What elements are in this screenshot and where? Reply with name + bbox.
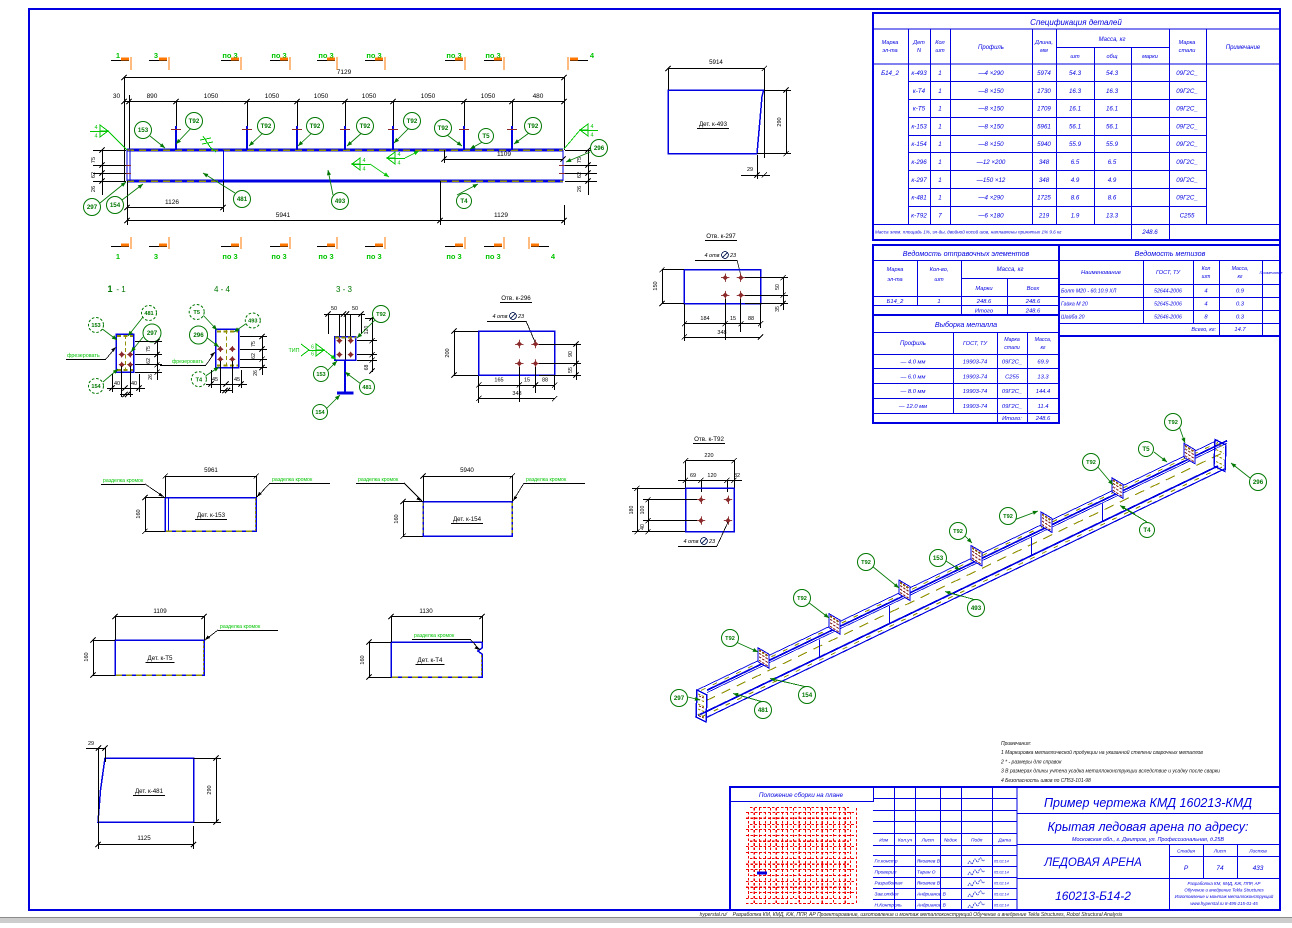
holes detail к-297 right dims 50/35	[783, 278, 785, 310]
isometric beam: web center dashes	[706, 451, 1226, 701]
svg-text:—8 ×150: —8 ×150	[977, 141, 1004, 148]
weld symbols (green)	[90, 125, 108, 137]
svg-text:Листов: Листов	[1248, 849, 1267, 855]
svg-text:Наименование: Наименование	[1081, 270, 1122, 276]
detail к-Т5 dim 1109	[115, 616, 204, 618]
svg-text:мм: мм	[1040, 48, 1048, 54]
holes detail к-297 bolts	[721, 274, 729, 282]
svg-text:Таран О: Таран О	[917, 870, 936, 876]
svg-text:Т92: Т92	[725, 636, 735, 642]
svg-text:Т5: Т5	[193, 310, 200, 316]
svg-text:69: 69	[690, 473, 696, 479]
svg-text:153: 153	[138, 127, 149, 134]
signature table grid	[894, 787, 896, 910]
svg-text:Т92: Т92	[1086, 460, 1096, 466]
svg-text:к-481: к-481	[911, 195, 926, 202]
svg-text:Т92: Т92	[797, 596, 807, 602]
svg-text:0.9: 0.9	[1236, 289, 1245, 295]
svg-text:1130: 1130	[419, 608, 433, 615]
svg-text:Положение сборки на плане: Положение сборки на плане	[759, 791, 844, 799]
svg-text:Андрианов В: Андрианов В	[916, 903, 947, 909]
svg-text:4: 4	[362, 158, 365, 164]
detail к-153 dim 160	[145, 498, 147, 532]
holes detail к-296 plate	[479, 331, 555, 375]
isometric left end plate к-297	[696, 690, 707, 722]
svg-text:1: 1	[107, 284, 112, 294]
section 3-3 stiffener plate	[335, 337, 356, 360]
svg-text:по 3: по 3	[318, 252, 333, 261]
svg-text:Всего, кг:: Всего, кг:	[1191, 327, 1216, 333]
svg-text:Р: Р	[1184, 865, 1189, 872]
elevation bottom dimension 1129	[440, 220, 564, 222]
svg-text:Шайба 20: Шайба 20	[1061, 314, 1085, 321]
svg-text:5940: 5940	[460, 467, 474, 474]
section 1-1 labels	[101, 328, 117, 340]
elevation bottom dimension 1126	[127, 207, 223, 209]
svg-text:4: 4	[1204, 302, 1207, 308]
holes detail к-Т92 dim 220	[686, 460, 735, 462]
svg-text:248.6: 248.6	[1025, 309, 1041, 315]
svg-text:29: 29	[747, 167, 753, 173]
svg-text:Т92: Т92	[360, 123, 371, 130]
shipping elements table	[873, 245, 1059, 315]
svg-text:—8 ×150: —8 ×150	[977, 123, 1004, 130]
svg-text:40: 40	[640, 524, 646, 530]
svg-text:Крытая ледовая арена по адресу: Крытая ледовая арена по адресу:	[1048, 820, 1249, 834]
svg-text:1: 1	[116, 51, 120, 60]
beam end (right, к-296)	[562, 150, 564, 181]
isometric beam: bottom flange near edge	[706, 468, 1226, 718]
svg-text:433: 433	[1253, 865, 1264, 872]
specification table header	[908, 29, 910, 224]
svg-text:1.9: 1.9	[1071, 212, 1080, 219]
svg-text:разделка кромок: разделка кромок	[526, 477, 567, 483]
isometric beam: top flange far edge	[697, 440, 1218, 690]
svg-text:23: 23	[729, 253, 737, 259]
svg-text:Дет: Дет	[912, 40, 925, 46]
svg-text:09Г2С_: 09Г2С_	[1002, 389, 1022, 395]
svg-text:1 Маркировка металлической пр: 1 Маркировка металлической продукции на …	[1001, 749, 1203, 756]
svg-text:3 В размерах длины учтена уса: 3 В размерах длины учтена усадка металло…	[1001, 769, 1220, 775]
svg-text:4: 4	[94, 125, 97, 131]
svg-text:68: 68	[364, 365, 370, 371]
svg-text:Стадия: Стадия	[1177, 849, 1195, 855]
detail к-493 dim 290	[786, 90, 788, 154]
svg-text:Подп: Подп	[971, 838, 983, 844]
svg-text:шт: шт	[934, 277, 944, 283]
svg-text:50: 50	[775, 284, 781, 290]
specification table frame	[873, 13, 1280, 240]
svg-text:Яковлев В: Яковлев В	[916, 859, 941, 865]
svg-text:5961: 5961	[1037, 123, 1051, 130]
svg-text:Итого:: Итого:	[1002, 416, 1022, 422]
svg-text:348: 348	[717, 330, 726, 336]
signatures (blue squiggles)	[968, 858, 985, 864]
svg-text:Кол: Кол	[1202, 266, 1211, 272]
svg-text:220: 220	[704, 453, 713, 459]
svg-text:19903-74: 19903-74	[963, 389, 988, 395]
svg-text:разделка кромок: разделка кромок	[272, 477, 313, 483]
svg-text:Примечание: Примечание	[1226, 45, 1261, 51]
svg-text:154: 154	[315, 410, 325, 416]
svg-text:248.6: 248.6	[1035, 416, 1051, 422]
elevation: dimension extension lines	[176, 102, 178, 151]
svg-text:по 3: по 3	[366, 252, 381, 261]
svg-text:—4 ×290: —4 ×290	[977, 195, 1004, 202]
svg-text:1730: 1730	[1037, 88, 1051, 95]
svg-text:290: 290	[207, 785, 213, 794]
svg-text:— 6.0 мм: — 6.0 мм	[899, 374, 925, 380]
svg-text:13.3: 13.3	[1037, 374, 1049, 380]
svg-text:Лист: Лист	[1213, 849, 1226, 855]
svg-text:—4 ×290: —4 ×290	[977, 70, 1004, 77]
svg-text:6: 6	[311, 345, 314, 351]
svg-text:62: 62	[251, 353, 257, 359]
svg-text:480: 480	[533, 93, 544, 100]
svg-text:56.1: 56.1	[1069, 123, 1081, 130]
svg-text:Б14_2: Б14_2	[881, 70, 899, 77]
svg-text:кг: кг	[1237, 274, 1242, 280]
svg-text:52644-2006: 52644-2006	[1154, 289, 1182, 295]
title: stage/sheet cells	[1169, 844, 1171, 910]
svg-text:4.9: 4.9	[1108, 177, 1117, 184]
svg-text:1050: 1050	[362, 93, 377, 100]
svg-text:26: 26	[577, 186, 583, 192]
detail к-481 plate	[98, 758, 194, 822]
section 4-4 labels	[202, 314, 217, 330]
title: project name row	[1017, 844, 1280, 846]
svg-text:153: 153	[933, 555, 944, 562]
section marks top row	[111, 51, 131, 70]
svg-text:разделка кромок: разделка кромок	[358, 477, 399, 483]
svg-text:180: 180	[629, 506, 635, 515]
svg-text:Дет. к-153: Дет. к-153	[197, 512, 226, 519]
svg-text:05.02.14: 05.02.14	[994, 860, 1009, 864]
svg-text:Длина,: Длина,	[1034, 40, 1053, 46]
svg-text:стали: стали	[1004, 345, 1020, 351]
svg-text:4: 4	[397, 161, 400, 167]
svg-text:19903-74: 19903-74	[963, 360, 988, 366]
svg-text:88: 88	[542, 378, 548, 384]
svg-text:55.9: 55.9	[1069, 141, 1082, 148]
section 3-3 labels	[327, 361, 337, 371]
section 3-3 bottom flange	[337, 392, 354, 395]
svg-text:74: 74	[1216, 865, 1224, 872]
svg-text:481: 481	[362, 385, 371, 391]
holes detail к-297 bottom dims	[684, 323, 760, 325]
isometric hidden stiffener lines on web	[819, 639, 821, 657]
svg-text:Разработал: Разработал	[875, 881, 903, 887]
svg-text:481: 481	[758, 707, 769, 714]
detail к-Т5 dim 160	[93, 640, 95, 675]
svg-text:09Г2С_: 09Г2С_	[1176, 88, 1198, 95]
svg-text:05.02.14: 05.02.14	[994, 893, 1009, 897]
svg-text:297: 297	[147, 330, 158, 337]
svg-text:Разработка КМ, КМД, КЖ, ППР, А: Разработка КМ, КМД, КЖ, ППР, АР	[1188, 881, 1261, 886]
svg-text:Дет. к-Т5: Дет. к-Т5	[148, 655, 174, 662]
svg-text:7129: 7129	[337, 69, 352, 76]
svg-text:55.9: 55.9	[1106, 141, 1119, 148]
svg-text:Яковлев В: Яковлев В	[916, 881, 941, 887]
svg-text:к-493: к-493	[911, 70, 927, 77]
svg-text:№док: №док	[944, 838, 958, 844]
svg-text:150: 150	[653, 281, 659, 290]
svg-text:493: 493	[971, 605, 982, 612]
svg-text:62: 62	[577, 172, 583, 178]
detail к-154 plate	[423, 502, 512, 537]
svg-text:по 3: по 3	[485, 252, 500, 261]
svg-text:219: 219	[1038, 212, 1050, 219]
svg-text:по 3: по 3	[222, 252, 237, 261]
svg-text:по 3: по 3	[271, 252, 286, 261]
svg-text:160: 160	[394, 514, 400, 523]
svg-text:05.02.14: 05.02.14	[994, 904, 1009, 908]
svg-text:Отв. к-296: Отв. к-296	[501, 295, 531, 302]
svg-text:0.3: 0.3	[1236, 302, 1245, 308]
svg-text:5941: 5941	[276, 212, 291, 219]
svg-text:248.6: 248.6	[976, 299, 992, 305]
svg-text:Т92: Т92	[1003, 514, 1013, 520]
svg-text:Т5: Т5	[482, 133, 490, 140]
svg-text:297: 297	[87, 204, 98, 211]
svg-text:1: 1	[938, 141, 941, 148]
svg-text:09Г2С_: 09Г2С_	[1176, 106, 1198, 113]
svg-text:290: 290	[777, 117, 783, 126]
svg-text:09Г2С_: 09Г2С_	[1176, 70, 1198, 77]
svg-text:к-153: к-153	[911, 123, 927, 130]
isometric beam: bottom flange far edge	[698, 466, 1218, 716]
svg-text:Примечания:: Примечания:	[1001, 741, 1032, 747]
section 4-4 bolts	[217, 346, 223, 352]
svg-text:5974: 5974	[1037, 70, 1051, 77]
holes detail к-296 dim 200	[454, 331, 456, 375]
svg-text:19903-74: 19903-74	[963, 404, 988, 410]
svg-text:8.6: 8.6	[1071, 195, 1080, 202]
svg-text:Профиль: Профиль	[978, 45, 1004, 51]
svg-text:4 отв: 4 отв	[492, 314, 507, 320]
svg-text:30: 30	[113, 93, 121, 100]
svg-text:4 Безопасность швов по СП53-1: 4 Безопасность швов по СП53-101-98	[1001, 778, 1091, 784]
isometric stiffeners Т92	[758, 648, 769, 669]
section 3-3 web below	[344, 360, 346, 392]
svg-text:Отв. к-Т92: Отв. к-Т92	[694, 436, 724, 443]
svg-text:40: 40	[131, 381, 137, 387]
svg-text:100: 100	[640, 506, 646, 515]
svg-text:к-Т4: к-Т4	[913, 88, 926, 95]
svg-text:Андрианов В: Андрианов В	[916, 892, 947, 898]
beam top flange (к-153)	[127, 148, 563, 151]
isometric beam: bottom flange dashes	[702, 467, 1222, 716]
section 1-1 plate outline	[116, 334, 133, 372]
svg-text:1050: 1050	[204, 93, 219, 100]
svg-text:1: 1	[938, 177, 941, 184]
svg-text:Гл.констр: Гл.констр	[875, 859, 898, 865]
svg-text:Т92: Т92	[261, 123, 272, 130]
svg-text:—8 ×150: —8 ×150	[977, 88, 1004, 95]
holes detail к-297 plate	[684, 270, 760, 304]
svg-text:Масса,: Масса,	[1232, 266, 1249, 272]
svg-text:Марка: Марка	[1179, 40, 1196, 46]
svg-text:154: 154	[802, 692, 813, 699]
svg-text:16.1: 16.1	[1106, 106, 1118, 113]
svg-text:1: 1	[938, 106, 941, 113]
svg-text:Марка: Марка	[1004, 337, 1020, 343]
svg-text:Выборка металла: Выборка металла	[935, 320, 997, 329]
svg-text:—12 ×200: —12 ×200	[976, 159, 1006, 166]
svg-text:Т92: Т92	[528, 123, 539, 130]
svg-text:1: 1	[938, 123, 941, 130]
svg-text:— 12.0 мм: — 12.0 мм	[898, 404, 927, 410]
svg-text:1: 1	[116, 252, 120, 261]
holes detail к-296 bottom dims	[479, 385, 555, 387]
svg-text:— 4.0 мм: — 4.0 мм	[899, 360, 925, 366]
svg-text:5940: 5940	[1037, 141, 1051, 148]
svg-text:62: 62	[91, 172, 97, 178]
svg-text:Т4: Т4	[1143, 527, 1151, 534]
holes detail к-296 bolts	[515, 340, 523, 348]
svg-text:Т92: Т92	[1168, 420, 1178, 426]
isometric beam: top flange near edge	[707, 441, 1227, 691]
field weld mark	[200, 136, 216, 152]
title: drawing name row	[1017, 813, 1280, 815]
web splice line (к-481 boundary)	[223, 150, 225, 181]
svg-text:1: 1	[938, 195, 941, 202]
svg-text:- 1: - 1	[116, 285, 126, 294]
svg-text:11.4: 11.4	[1038, 404, 1049, 410]
assembly position highlight mark	[757, 872, 767, 875]
svg-text:3 - 3: 3 - 3	[336, 285, 353, 294]
svg-text:Кол-во,: Кол-во,	[930, 267, 949, 273]
svg-text:—6 ×180: —6 ×180	[977, 212, 1004, 219]
svg-text:1109: 1109	[497, 151, 511, 158]
section 3-3 top dims 50/50	[324, 314, 365, 316]
elevation: overall dimension 7129	[124, 77, 564, 79]
svg-text:фрезеровать: фрезеровать	[67, 353, 100, 359]
svg-text:248.6: 248.6	[1025, 299, 1041, 305]
metal selection table	[873, 315, 1059, 423]
svg-text:6.5: 6.5	[1108, 159, 1117, 166]
svg-text:154: 154	[110, 202, 121, 209]
svg-text:Т92: Т92	[953, 529, 963, 535]
svg-text:Болт М20 - 60.10.9 ХЛ: Болт М20 - 60.10.9 ХЛ	[1061, 289, 1117, 295]
section 1-1 bolts	[119, 352, 125, 358]
detail к-Т4 plate	[391, 642, 482, 677]
svg-text:56.1: 56.1	[1106, 123, 1118, 130]
svg-text:Т92: Т92	[189, 118, 200, 125]
svg-text:Марка: Марка	[882, 40, 899, 46]
svg-text:144.4: 144.4	[1036, 389, 1051, 395]
elevation part labels (green circles)	[150, 136, 165, 148]
svg-text:45: 45	[234, 377, 240, 383]
svg-text:Марка: Марка	[887, 267, 904, 273]
svg-text:к-296: к-296	[911, 159, 927, 166]
svg-text:75: 75	[91, 157, 97, 163]
svg-text:1050: 1050	[265, 93, 280, 100]
svg-text:153: 153	[316, 372, 325, 378]
svg-text:160: 160	[136, 509, 142, 518]
section 4-4 right dims	[262, 336, 264, 375]
svg-text:1125: 1125	[137, 835, 151, 842]
svg-text:4: 4	[590, 124, 593, 130]
stiffeners Т92 on elevation	[175, 126, 177, 150]
svg-text:09Г2С_: 09Г2С_	[1002, 404, 1022, 410]
svg-text:4: 4	[397, 152, 400, 158]
svg-text:153: 153	[91, 323, 100, 329]
svg-text:90: 90	[568, 351, 574, 357]
detail к-153 dim 5961	[165, 476, 256, 478]
holes detail к-296 right dims 90/55	[576, 344, 578, 380]
svg-text:50: 50	[352, 306, 358, 312]
svg-text:общ: общ	[1106, 54, 1117, 60]
section 1-1 right dims 75/62/26	[157, 341, 159, 380]
svg-text:Изготовление и монтаж металлок: Изготовление и монтаж металлоконструкций	[1175, 894, 1274, 899]
svg-text:Б14_2: Б14_2	[887, 299, 904, 305]
detail к-154 dim 5940	[423, 476, 512, 478]
svg-text:ГОСТ, ТУ: ГОСТ, ТУ	[963, 341, 989, 347]
svg-text:32: 32	[734, 473, 740, 479]
svg-text:165: 165	[494, 378, 503, 384]
left side small dims 75/62/26	[102, 150, 104, 195]
section 4-4 bottom dims 45/45	[206, 384, 247, 386]
svg-text:4: 4	[1204, 289, 1207, 295]
svg-text:40: 40	[114, 381, 120, 387]
svg-text:14.7: 14.7	[1234, 327, 1246, 333]
svg-text:Ведомость отправочных элементо: Ведомость отправочных элементов	[903, 249, 1030, 258]
svg-text:09Г2С_: 09Г2С_	[1176, 195, 1198, 202]
svg-text:75: 75	[251, 341, 257, 347]
beam bottom flange (к-154)	[127, 179, 563, 182]
detail к-Т4 dim 160	[369, 642, 371, 677]
right side small dims 75/62/26	[588, 150, 590, 195]
svg-text:Т92: Т92	[407, 118, 418, 125]
svg-text:кг: кг	[1040, 345, 1045, 351]
detail к-493 dim 5914	[668, 68, 764, 70]
svg-text:23: 23	[708, 539, 716, 545]
svg-text:16.1: 16.1	[1069, 106, 1081, 113]
svg-text:890: 890	[147, 93, 158, 100]
svg-text:296: 296	[193, 332, 204, 339]
section 3-3 right dims 120/68	[372, 318, 374, 372]
isometric right end plate к-296	[1214, 439, 1226, 471]
svg-text:3: 3	[154, 51, 158, 60]
svg-text:Дет. к-493: Дет. к-493	[699, 121, 728, 128]
svg-text:1: 1	[938, 159, 941, 166]
svg-text:348: 348	[1039, 159, 1050, 166]
svg-text:15: 15	[730, 316, 736, 322]
svg-text:Т92: Т92	[438, 125, 449, 132]
svg-text:6.5: 6.5	[1071, 159, 1080, 166]
svg-text:Дет. к-Т4: Дет. к-Т4	[418, 657, 444, 664]
svg-text:50: 50	[331, 306, 337, 312]
svg-text:ТИП: ТИП	[288, 348, 299, 354]
svg-text:348: 348	[1039, 177, 1050, 184]
svg-text:Кол: Кол	[935, 40, 945, 46]
svg-text:к-Т92: к-Т92	[911, 212, 927, 219]
svg-text:15: 15	[524, 378, 530, 384]
svg-text:Примечание: Примечание	[1259, 270, 1283, 275]
svg-text:4 - 4: 4 - 4	[214, 285, 231, 294]
svg-text:Изм: Изм	[879, 838, 889, 844]
svg-text:Зав.отдел: Зав.отдел	[875, 892, 899, 898]
svg-text:Ведомость метизов: Ведомость метизов	[1135, 249, 1206, 258]
svg-text:7: 7	[938, 212, 942, 219]
svg-text:Кол.уч: Кол.уч	[898, 838, 913, 844]
svg-text:120: 120	[707, 473, 716, 479]
svg-text:55: 55	[568, 367, 574, 373]
svg-text:www.hyperstal.ru 8-49: www.hyperstal.ru 8-495-215-01-45	[1190, 901, 1258, 906]
section marks bottom row	[111, 237, 131, 261]
svg-text:марки: марки	[1142, 54, 1158, 60]
